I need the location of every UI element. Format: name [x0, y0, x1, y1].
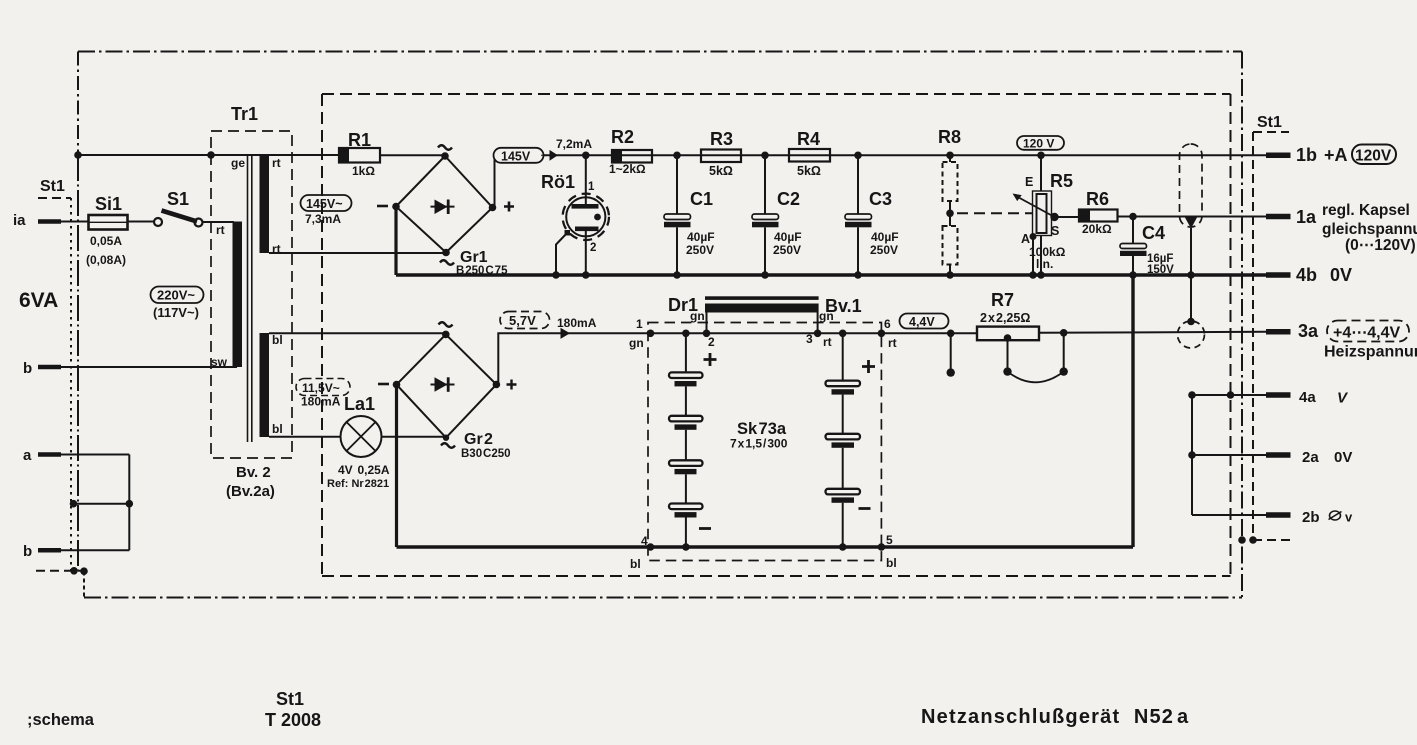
- node Gr1 top corner: [441, 152, 449, 160]
- wire: switch to transformer primary: [203, 221, 235, 223]
- wire choke pin 3 lead: [817, 313, 819, 334]
- svg-text:1a: 1a: [1296, 207, 1317, 227]
- node on St1 line: [70, 500, 78, 508]
- svg-text:rt: rt: [272, 156, 281, 170]
- svg-text:6: 6: [884, 317, 891, 331]
- wire terminal 4a: [1192, 394, 1266, 396]
- wire terminal 2b: [1192, 514, 1266, 516]
- node R8 midpoint: [946, 210, 954, 218]
- svg-text:1b: 1b: [1296, 145, 1317, 165]
- node pin 5: [878, 543, 886, 551]
- svg-text:St1: St1: [40, 178, 65, 195]
- svg-text:120 V: 120 V: [1023, 137, 1054, 151]
- svg-text:Bv. 2: Bv. 2: [236, 464, 271, 481]
- svg-text:ge: ge: [231, 156, 245, 170]
- terminal b (lower) contact bar: [38, 548, 61, 553]
- svg-text:5kΩ: 5kΩ: [709, 164, 733, 178]
- capacitor C3 minus plate (solid): [845, 222, 872, 228]
- heavy link 0V rail down to heater minus rail: [1131, 275, 1134, 547]
- wire: link from St1 line to strap: [73, 503, 129, 505]
- svg-text:Si1: Si1: [95, 194, 122, 214]
- wire: secondary bl bottom to lamp: [269, 436, 341, 438]
- node left cell stack top: [682, 330, 690, 338]
- svg-text:St1: St1: [1257, 114, 1282, 131]
- svg-text:2a: 2a: [1302, 449, 1319, 466]
- cell 4 left minus plate: [675, 512, 697, 517]
- svg-text:11,5V~: 11,5V~: [302, 381, 340, 395]
- chassis enclosure border right edge: [1241, 52, 1243, 598]
- tube Rö1 anode lead to rail: [585, 155, 587, 204]
- cell 3 right plus plate: [826, 489, 861, 495]
- resistor R2 left band fill: [612, 150, 622, 163]
- svg-text:St1: St1: [276, 689, 304, 709]
- rectifier Gr1 diode cathode bar: [447, 200, 450, 215]
- svg-text:gn: gn: [629, 336, 644, 350]
- wire: top rail left segment: [78, 154, 339, 156]
- svg-text:bl: bl: [272, 333, 283, 347]
- node R5 wiper S: [1050, 213, 1058, 221]
- node R7 center tap: [1004, 334, 1012, 342]
- wire R8 middle: [949, 201, 951, 226]
- svg-text:a: a: [23, 447, 32, 464]
- node tube pin2 on 0V rail: [582, 271, 590, 279]
- wire R7 left test stub: [950, 333, 952, 372]
- module Sk73a dashed enclosure box: [648, 323, 881, 561]
- resistor R7 body: [977, 327, 1039, 341]
- wire left stack bottom lead: [685, 518, 687, 548]
- wire R5 top lead: [1040, 155, 1042, 191]
- label oval 220V~: [151, 287, 204, 304]
- transformer secondary winding lower bar: [260, 333, 270, 437]
- cable marker circle (dashed) on 3a wire: [1178, 321, 1205, 348]
- node: chassis tie on top rail: [74, 151, 82, 159]
- current arrow on 5,7V line: [552, 329, 569, 338]
- node chassis stub left: [70, 567, 78, 575]
- wire cable marker down: [1190, 228, 1192, 322]
- svg-text:C4: C4: [1142, 223, 1165, 243]
- wire right stack top lead: [842, 333, 844, 380]
- svg-text:gleichspannung: gleichspannung: [1322, 221, 1417, 238]
- terminal 2b slash through zero: [1329, 512, 1342, 520]
- choke Dr1 winding bar thin: [705, 296, 819, 300]
- node cable marker at circle: [1187, 318, 1195, 326]
- svg-text:Tr1: Tr1: [231, 104, 258, 124]
- svg-text:150V: 150V: [1147, 264, 1174, 276]
- svg-text:250V: 250V: [686, 243, 714, 257]
- svg-text:+A: +A: [1324, 145, 1348, 165]
- right stack plus sign: [862, 360, 875, 373]
- svg-text:(0⋯120V): (0⋯120V): [1345, 237, 1416, 254]
- wire right stack bottom lead: [842, 503, 844, 547]
- wire terminal 2a: [1192, 454, 1266, 456]
- transformer Tr1 primary winding bar: [233, 222, 243, 368]
- rectifier Gr1 ac symbol bottom: [440, 260, 454, 265]
- tube Rö1 envelope inner circle: [566, 197, 605, 236]
- wire R5 A lead down: [1032, 237, 1034, 276]
- node on strap: [126, 500, 134, 508]
- svg-text:145V: 145V: [501, 149, 531, 163]
- terminal 2a contact bar: [1266, 452, 1291, 458]
- svg-text:S: S: [1051, 224, 1059, 238]
- resistor R8 lower body (dashed): [943, 226, 958, 265]
- transformer Tr1 module dashed box: [211, 131, 292, 458]
- node cable marker on 0V rail: [1187, 271, 1195, 279]
- resistor R6 body: [1079, 210, 1118, 222]
- wire: strap vertical a-b: [128, 455, 130, 551]
- svg-text:5: 5: [886, 533, 893, 547]
- svg-text:2b: 2b: [1302, 509, 1320, 526]
- wire C1 top lead: [676, 155, 678, 214]
- svg-text:Heizspannung: Heizspannung: [1324, 344, 1417, 361]
- chassis enclosure border left lower corner piece: [83, 572, 85, 598]
- wire right cell1-cell2: [842, 395, 844, 434]
- svg-text:Rö1: Rö1: [541, 172, 575, 192]
- rectifier Gr1 ac symbol top: [438, 145, 452, 150]
- svg-text:Gr1: Gr1: [460, 249, 488, 266]
- terminal 4b contact bar: [1266, 272, 1291, 278]
- node Gr2 bottom corner: [443, 435, 449, 441]
- wire: Gr1 minus corner down to 0V rail: [394, 207, 397, 276]
- wire C4 top lead: [1132, 217, 1134, 244]
- wire: R1 to bridge top: [380, 154, 445, 156]
- node chassis tie right outer: [1238, 536, 1246, 544]
- svg-text:20kΩ: 20kΩ: [1082, 222, 1112, 236]
- label oval 120V at 1b: [1352, 145, 1396, 165]
- capacitor C4 plus plate (outline): [1120, 244, 1147, 249]
- svg-text:4b: 4b: [1296, 265, 1317, 285]
- svg-text:7 x 1,5 / 300: 7 x 1,5 / 300: [730, 437, 788, 451]
- svg-text:C1: C1: [690, 189, 713, 209]
- wire R8 bottom lead: [949, 265, 951, 276]
- potentiometer R5 wiper arrowhead: [1013, 194, 1022, 202]
- chassis enclosure border bottom edge: [84, 597, 1242, 599]
- node 2a at strap: [1188, 451, 1196, 459]
- wire R5 bottom lead down: [1040, 236, 1042, 276]
- node pin 4: [647, 543, 655, 551]
- svg-text:7,3mA: 7,3mA: [305, 212, 341, 226]
- label oval 4,4V: [900, 314, 949, 329]
- terminal 1a contact bar: [1266, 214, 1291, 220]
- transformer secondary winding upper bar: [260, 155, 270, 253]
- svg-text:rt: rt: [216, 223, 225, 237]
- svg-text:R6: R6: [1086, 189, 1109, 209]
- rectifier Gr1 diode triangle: [435, 200, 448, 215]
- svg-text:7,2mA: 7,2mA: [556, 137, 592, 151]
- rectifier Gr1 plus sign: [504, 202, 514, 212]
- svg-text:Sk 73a: Sk 73a: [737, 420, 787, 438]
- svg-text:5,7V: 5,7V: [509, 313, 536, 328]
- node C4 bottom on 0V rail: [1129, 271, 1137, 279]
- node C1 bottom: [673, 271, 681, 279]
- resistor R2 body: [612, 150, 652, 163]
- node R7 right junction: [1060, 329, 1068, 337]
- svg-text:v: v: [1345, 510, 1353, 525]
- rectifier Gr2 ac symbol top: [439, 322, 453, 327]
- terminal 2b contact bar: [1266, 512, 1291, 518]
- label dashed oval +4...4,4V: [1327, 321, 1409, 342]
- svg-text:Ref: Nr 2821: Ref: Nr 2821: [327, 478, 389, 490]
- node C2 bottom: [761, 271, 769, 279]
- svg-text:R7: R7: [991, 290, 1014, 310]
- cell 2 right plus plate: [826, 434, 861, 440]
- chassis stub (dashed) bottom right: [1253, 539, 1292, 541]
- resistor R1 left band fill: [339, 148, 349, 163]
- wire: fuse to switch: [128, 221, 155, 223]
- wire: Gr1 plus corner up to top rail: [493, 155, 495, 207]
- svg-text:b: b: [23, 543, 32, 560]
- potentiometer R5 wiper arrow: [1016, 196, 1055, 217]
- heavy heater minus rail: [397, 545, 1134, 548]
- wire cell2-cell3: [685, 430, 687, 461]
- node right cell stack top: [839, 330, 847, 338]
- capacitor C3 plus plate (outline): [845, 214, 872, 220]
- terminal 2b function 0V (slashed zero): [1330, 511, 1341, 520]
- wire C2 top lead: [764, 155, 766, 214]
- wire R7 to terminal 3a: [1039, 332, 1266, 333]
- cell 2 left plus plate: [669, 416, 703, 422]
- connector St1 (right) dashed stub: [1253, 131, 1289, 133]
- inner unit boundary right edge: [1230, 94, 1232, 576]
- svg-text:145V~: 145V~: [306, 197, 343, 211]
- terminal 1b contact bar: [1266, 153, 1291, 159]
- cell 3 left plus plate: [669, 460, 703, 466]
- heavy 0V rail (upper circuit): [396, 273, 1266, 276]
- wire C2 bottom lead: [764, 227, 766, 275]
- svg-text:(0,08A): (0,08A): [86, 253, 126, 267]
- cell 1 right plus plate: [826, 381, 861, 387]
- cell 1 right minus plate: [832, 389, 855, 394]
- terminal ia contact bar: [38, 219, 61, 224]
- rectifier Gr2 minus sign: [378, 383, 389, 386]
- svg-text:5kΩ: 5kΩ: [797, 164, 821, 178]
- node C2 top: [761, 152, 769, 160]
- lamp La1 cross line 2: [347, 422, 376, 451]
- capacitor C4 minus plate (solid): [1120, 251, 1147, 256]
- svg-text:T 2008: T 2008: [265, 710, 321, 730]
- node pin 3: [814, 330, 822, 338]
- node R5 terminal A: [1030, 233, 1037, 240]
- svg-text:rt: rt: [888, 336, 897, 350]
- label oval 11,5V~ (dashed): [296, 379, 350, 396]
- svg-text:lin.: lin.: [1036, 257, 1053, 271]
- rectifier Gr2 internal diode line: [431, 384, 455, 386]
- wire R5 wiper to R6: [1058, 216, 1079, 218]
- switch S1 lever: [162, 211, 198, 222]
- svg-text:180mA: 180mA: [301, 395, 341, 409]
- cable marker arrow: [1185, 218, 1197, 229]
- svg-text:C2: C2: [777, 189, 800, 209]
- node Gr2 top corner: [442, 331, 450, 339]
- rectifier Gr2 diode triangle: [435, 377, 448, 392]
- cell 2 left minus plate: [675, 424, 697, 429]
- wire C1 bottom lead: [676, 227, 678, 275]
- dashed link R8 midpoint to R5 wiper: [957, 212, 1032, 214]
- svg-text:ia: ia: [13, 212, 26, 229]
- svg-text:4a: 4a: [1299, 389, 1316, 406]
- tube Rö1 envelope outer circle (dashed): [563, 194, 609, 240]
- strap wire 4a-2a-2b: [1191, 395, 1193, 515]
- left stack minus sign: [699, 527, 711, 530]
- svg-text:250V: 250V: [773, 243, 801, 257]
- terminal 3a contact bar: [1266, 329, 1291, 335]
- wire C4 bottom lead: [1132, 256, 1134, 275]
- svg-text:gn: gn: [690, 309, 705, 323]
- node R8 bottom: [946, 271, 954, 279]
- svg-text:2 x 2,25Ω: 2 x 2,25Ω: [980, 311, 1030, 325]
- resistor R1 body: [339, 148, 380, 163]
- inner unit boundary (dashed box) top edge: [322, 93, 1231, 95]
- cell 3 right minus plate: [832, 497, 855, 502]
- connector St1 (left) dashed boundary line: [70, 198, 72, 570]
- svg-text:bl: bl: [886, 556, 897, 570]
- svg-text:E: E: [1025, 175, 1033, 189]
- tube Rö1 cathode lead down: [585, 231, 587, 275]
- cell 1 left minus plate: [675, 381, 697, 386]
- node R5 top on rail: [1037, 152, 1045, 160]
- svg-text:R8: R8: [938, 127, 961, 147]
- svg-text:6VA: 6VA: [19, 289, 58, 312]
- node pin 6: [878, 330, 886, 338]
- svg-text:40µF: 40µF: [871, 230, 899, 244]
- svg-text:3: 3: [806, 332, 813, 346]
- svg-text:0V: 0V: [1330, 265, 1352, 285]
- svg-text:B30 C250: B30 C250: [461, 448, 511, 460]
- switch S1 right contact: [195, 219, 203, 227]
- node R5 A on 0V rail: [1029, 271, 1037, 279]
- node C3 top: [854, 152, 862, 160]
- tube Rö1 upper electrode: [572, 204, 599, 209]
- node R5 bottom on 0V rail: [1037, 271, 1045, 279]
- fuse Si1 element line: [89, 221, 128, 223]
- node Gr1 left corner: [392, 203, 400, 211]
- transformer core line left: [247, 155, 249, 442]
- node C1 top: [673, 152, 681, 160]
- node: top rail at transformer box edge: [207, 151, 215, 159]
- svg-text:(Bv.2a): (Bv.2a): [226, 483, 275, 500]
- inner unit boundary left edge: [321, 94, 323, 576]
- resistor R8 upper body (dashed): [943, 162, 958, 201]
- wire: Gr2 minus corner down to heater 0V rail: [395, 385, 398, 547]
- capacitor C2 plus plate (outline): [752, 214, 779, 220]
- svg-text:3a: 3a: [1298, 321, 1319, 341]
- wire left stack top lead: [685, 333, 687, 372]
- wire R7 jumper up to 3a line: [1063, 333, 1065, 372]
- tube Rö1 side lead contact square: [565, 230, 571, 236]
- resistor R6 left band fill: [1079, 210, 1090, 222]
- svg-text:R3: R3: [710, 129, 733, 149]
- svg-text:2: 2: [708, 335, 715, 349]
- right stack minus sign: [859, 507, 871, 510]
- node chassis stub right: [80, 567, 88, 575]
- node 4a at inner boundary: [1227, 391, 1235, 399]
- svg-text:(117V~): (117V~): [153, 305, 199, 320]
- resistor R3 body: [701, 150, 741, 163]
- rectifier Gr2 ac symbol bottom: [441, 443, 455, 448]
- wire C3 bottom lead: [857, 227, 859, 275]
- wire R8 top lead: [949, 155, 951, 162]
- rectifier Gr1 diamond outline: [396, 156, 493, 253]
- svg-text:1: 1: [588, 181, 595, 193]
- node 4a at strap: [1188, 391, 1196, 399]
- svg-text:+4⋯4,4V: +4⋯4,4V: [1333, 325, 1400, 342]
- svg-text:40µF: 40µF: [774, 230, 802, 244]
- svg-text:4,4V: 4,4V: [909, 315, 935, 329]
- svg-text:Gr 2: Gr 2: [464, 431, 493, 448]
- wire cell1-cell2: [685, 386, 687, 415]
- rectifier Gr1 internal diode line: [431, 206, 455, 208]
- jumper arc R7 tap to right end: [1008, 372, 1064, 383]
- connector St1 (right) dashed boundary line: [1252, 132, 1254, 540]
- label capsule 5,7V (dashed): [500, 312, 550, 329]
- svg-text:1kΩ: 1kΩ: [352, 164, 375, 178]
- cell 2 right minus plate: [832, 442, 855, 447]
- connector St1 (left) dashed boundary stub: [38, 197, 71, 199]
- rectifier Gr2 diode cathode bar: [447, 377, 450, 392]
- node R7 jumper right end: [1060, 367, 1068, 375]
- wire R7 tap lead down: [1007, 340, 1009, 371]
- node pin 2: [703, 330, 711, 338]
- wire C3 top lead: [857, 155, 859, 214]
- cell 3 left minus plate: [675, 469, 697, 474]
- node tube side lead on 0V rail: [552, 271, 560, 279]
- label oval 145V~ (transformer secondary): [301, 195, 352, 211]
- potentiometer R5 inner body: [1037, 194, 1047, 233]
- tube Rö1 gas dot: [594, 214, 601, 221]
- svg-text:0,05A: 0,05A: [90, 234, 122, 248]
- fuse Si1 body: [89, 215, 128, 230]
- cable marker capsule (dashed) around 1b/1a wires: [1180, 144, 1203, 227]
- svg-text:220V~: 220V~: [157, 288, 195, 303]
- node pin 1: [647, 330, 655, 338]
- svg-text:2: 2: [590, 242, 596, 254]
- wire: top rail from Gr1 plus to terminal 1b: [495, 154, 1267, 156]
- choke Dr1 winding bar thick: [705, 304, 819, 313]
- capacitor C2 minus plate (solid): [752, 222, 779, 228]
- capacitor C1 minus plate (solid): [664, 222, 691, 228]
- svg-text:0V: 0V: [1334, 449, 1352, 466]
- rectifier Gr2 plus sign: [507, 380, 517, 390]
- wire right cell2-cell3: [842, 448, 844, 489]
- node left stack bottom: [682, 543, 690, 551]
- tube Rö1 side lead: [556, 233, 568, 276]
- svg-text:gn: gn: [819, 309, 834, 323]
- wire: secondary rt to bridge bottom: [269, 252, 446, 254]
- svg-text:1~2kΩ: 1~2kΩ: [609, 162, 646, 176]
- terminal 4a contact bar: [1266, 392, 1291, 398]
- svg-text:120V: 120V: [1355, 148, 1392, 165]
- svg-text:sw: sw: [211, 355, 228, 369]
- rectifier Gr1 minus sign: [377, 205, 388, 208]
- svg-text:Netzanschlußgerät N52 a: Netzanschlußgerät N52 a: [921, 706, 1189, 728]
- wire: secondary bl top to Gr2 top corner: [269, 332, 446, 334]
- node Gr2 left corner: [393, 381, 401, 389]
- svg-text:b: b: [23, 360, 32, 377]
- lamp La1 circle: [341, 416, 382, 457]
- transformer core line right: [251, 155, 253, 442]
- node R7 left junction: [947, 330, 955, 338]
- left stack plus sign: [704, 353, 717, 366]
- node right stack bottom: [839, 543, 847, 551]
- wire cell3-cell4: [685, 474, 687, 503]
- chassis enclosure border left edge (upper part): [77, 52, 79, 155]
- node R7 tap lead end: [1003, 367, 1011, 375]
- rectifier Gr2 diamond outline: [397, 334, 497, 437]
- svg-text:180mA: 180mA: [557, 316, 597, 330]
- node R8 top: [946, 152, 954, 160]
- svg-text:R2: R2: [611, 127, 634, 147]
- svg-text:bl: bl: [272, 422, 283, 436]
- label oval 145V on rail: [494, 148, 544, 163]
